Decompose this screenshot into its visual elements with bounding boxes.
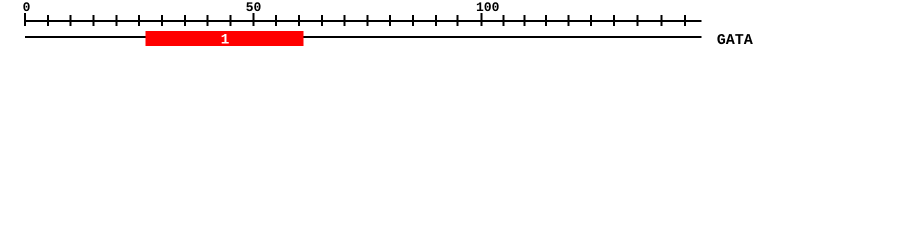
sequence name GATA xyxy=(717,34,752,44)
feature box label 1 xyxy=(222,34,229,44)
major tick 100 xyxy=(480,13,482,26)
major tick 0 xyxy=(24,13,26,26)
feature box 1 xyxy=(146,31,304,46)
label 50 xyxy=(246,2,260,11)
minor ticks xyxy=(47,15,686,26)
feature line xyxy=(25,36,702,38)
label 100 xyxy=(477,2,499,11)
major tick 50 xyxy=(252,13,254,26)
label 0 xyxy=(23,2,29,11)
ruler axis line xyxy=(25,20,702,22)
